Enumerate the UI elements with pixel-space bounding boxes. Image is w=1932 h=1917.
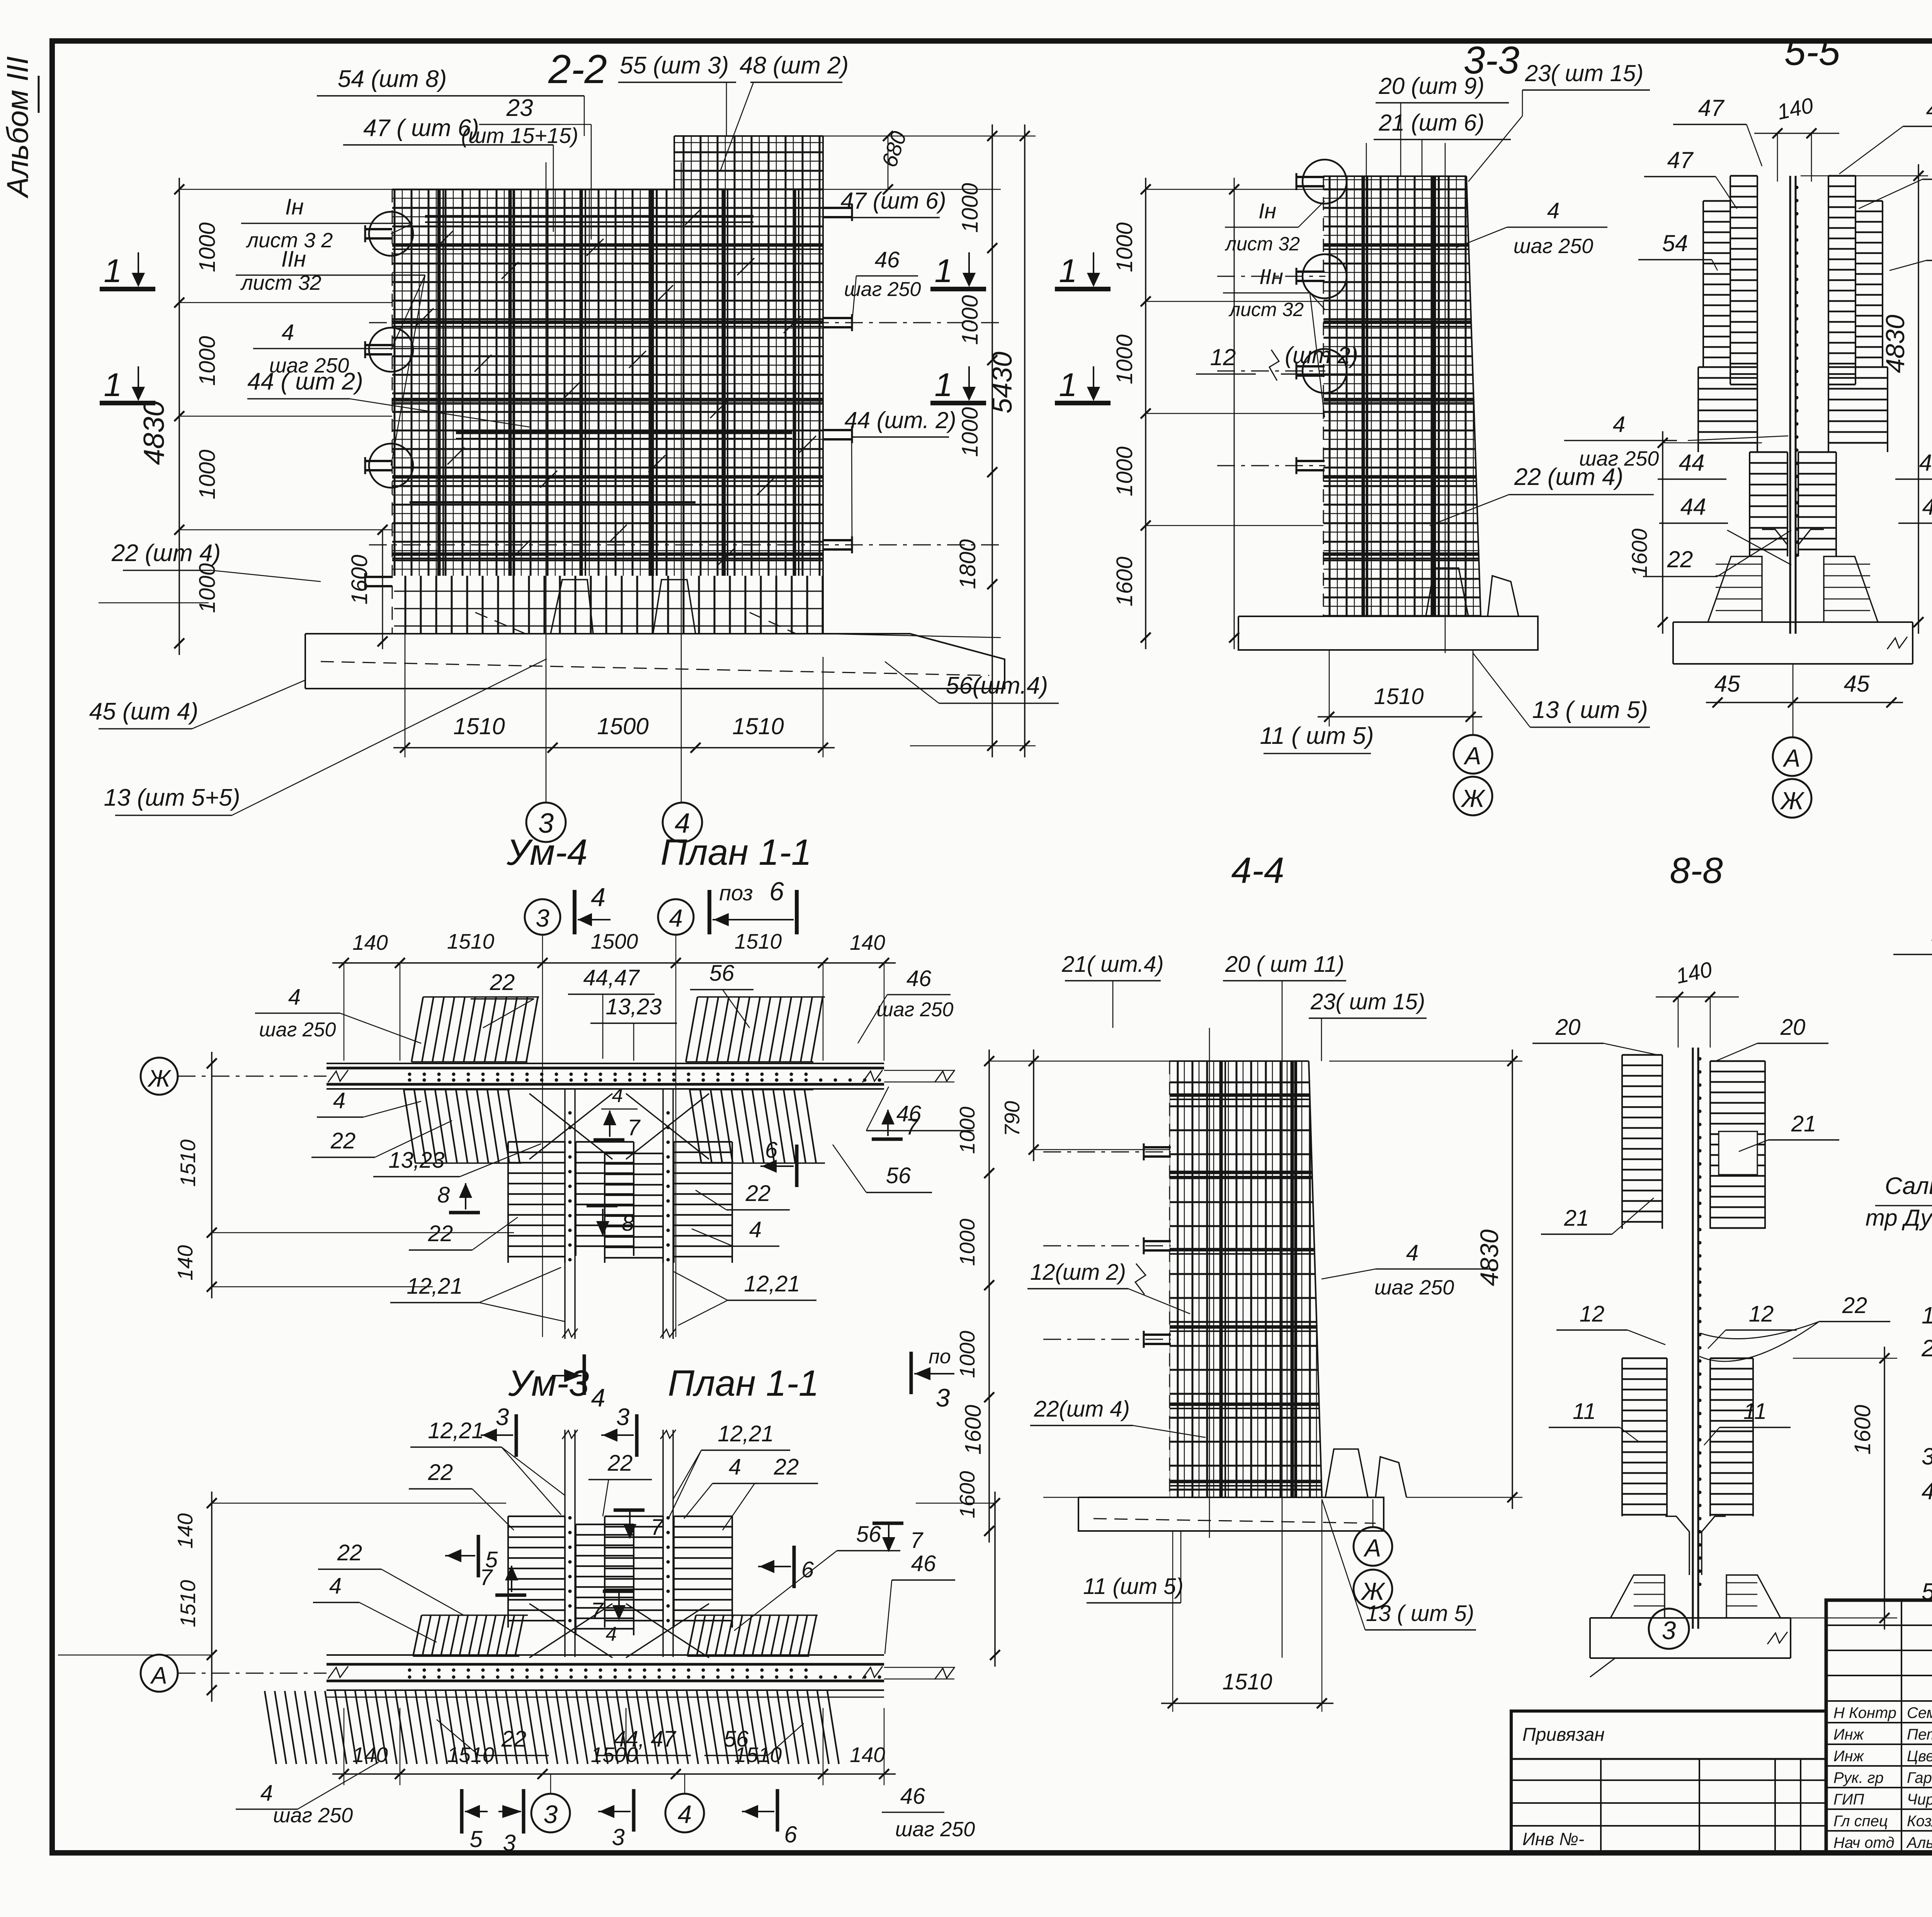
svg-text:22: 22 bbox=[607, 1451, 633, 1476]
plan UM-3 flag 3 marks top bbox=[515, 1414, 518, 1457]
plan UM-3 stem vertical bars bbox=[564, 1430, 565, 1657]
svg-text:1510: 1510 bbox=[447, 1743, 495, 1767]
svg-text:1500: 1500 bbox=[591, 929, 638, 953]
svg-text:47: 47 bbox=[1667, 147, 1694, 173]
svg-text:1000: 1000 bbox=[195, 336, 220, 386]
svg-text:47 (шт 6): 47 (шт 6) bbox=[840, 188, 946, 214]
section 2-2 foundation slab bbox=[305, 634, 1005, 689]
svg-text:4: 4 bbox=[612, 1084, 623, 1107]
plan UM-4 stem vertical bars bbox=[564, 1089, 565, 1339]
svg-text:Гарбуз: Гарбуз bbox=[1907, 1769, 1932, 1786]
svg-text:4830: 4830 bbox=[1475, 1229, 1503, 1286]
plan UM-4 cut flag 4 top bbox=[573, 890, 577, 934]
svg-text:46: 46 bbox=[911, 1551, 936, 1576]
svg-text:4: 4 bbox=[1613, 412, 1625, 437]
svg-text:1510: 1510 bbox=[176, 1139, 200, 1187]
svg-text:Ум-3: Ум-3 bbox=[508, 1363, 589, 1404]
svg-text:22: 22 bbox=[330, 1128, 356, 1153]
svg-text:13 (шт 5+5): 13 (шт 5+5) bbox=[104, 784, 240, 811]
svg-text:1510: 1510 bbox=[732, 713, 784, 739]
svg-text:2 В местах пропуска саль: 2 В местах пропуска сальников арматуру о… bbox=[1921, 1335, 1932, 1361]
svg-text:1600: 1600 bbox=[1850, 1405, 1875, 1454]
chevron funnel to foundation bbox=[1762, 529, 1787, 556]
svg-text:4: 4 bbox=[669, 904, 683, 932]
svg-text:7: 7 bbox=[910, 1528, 924, 1553]
svg-text:22 (шт 4): 22 (шт 4) bbox=[111, 540, 221, 566]
svg-text:11: 11 bbox=[1573, 1399, 1596, 1424]
svg-text:23: 23 bbox=[506, 95, 533, 121]
section 8-8 hatch bands lower bbox=[1622, 1357, 1667, 1359]
svg-text:22: 22 bbox=[501, 1726, 527, 1752]
section 5-5 axis circles bbox=[1773, 737, 1811, 776]
section 2-2 cut marks 1-1 left bbox=[100, 287, 155, 291]
svg-text:44: 44 bbox=[1919, 450, 1932, 476]
svg-text:по: по bbox=[929, 1345, 951, 1368]
section 3-3 second dim line bbox=[1234, 178, 1235, 649]
svg-text:Н Контр: Н Контр bbox=[1833, 1704, 1896, 1721]
svg-text:21: 21 bbox=[1564, 1206, 1589, 1231]
svg-text:12: 12 bbox=[1580, 1301, 1605, 1327]
svg-text:7: 7 bbox=[628, 1115, 641, 1140]
plan UM-4 axis circles 3 4 top bbox=[525, 899, 560, 935]
svg-text:4: 4 bbox=[591, 883, 605, 912]
svg-text:11 (шт 5): 11 (шт 5) bbox=[1083, 1574, 1184, 1599]
svg-text:45 (шт 4): 45 (шт 4) bbox=[89, 698, 198, 725]
svg-text:1: 1 bbox=[1059, 253, 1077, 289]
section 2-2 module dash-dot lines bbox=[369, 322, 1001, 323]
svg-text:22: 22 bbox=[337, 1540, 362, 1565]
svg-text:1510: 1510 bbox=[735, 1743, 782, 1767]
svg-text:1000: 1000 bbox=[957, 295, 983, 345]
svg-text:Iн: Iн bbox=[1259, 199, 1276, 223]
svg-text:13,23: 13,23 bbox=[388, 1148, 444, 1173]
svg-text:3: 3 bbox=[536, 904, 549, 932]
svg-text:1600: 1600 bbox=[347, 555, 372, 604]
svg-text:140: 140 bbox=[173, 1513, 197, 1549]
svg-text:1: 1 bbox=[1059, 367, 1077, 403]
svg-text:47: 47 bbox=[1926, 97, 1932, 123]
svg-text:шаг 250: шаг 250 bbox=[895, 1818, 975, 1841]
plan UM-3 flag 7 marks bbox=[614, 1509, 645, 1512]
svg-text:4: 4 bbox=[729, 1454, 741, 1480]
chevron column center bars at x=4640 bbox=[1789, 176, 1791, 634]
svg-text:Ж: Ж bbox=[1461, 784, 1486, 812]
svg-text:Цветкова: Цветкова bbox=[1907, 1748, 1932, 1765]
svg-text:1510: 1510 bbox=[447, 929, 495, 953]
section 2-2 rebar mesh main bbox=[392, 189, 823, 576]
plan UM-3 flag 6 mark bbox=[793, 1546, 796, 1588]
svg-text:4: 4 bbox=[591, 1383, 605, 1412]
svg-text:48 (шт 2): 48 (шт 2) bbox=[740, 52, 849, 79]
svg-text:1000: 1000 bbox=[1112, 446, 1137, 496]
section 4-4 module dash-dot lines bbox=[1043, 1152, 1171, 1153]
svg-text:4-4: 4-4 bbox=[1231, 850, 1284, 891]
section 8-8 top dim 140 bbox=[1656, 997, 1739, 998]
section 4-4 axis circles A Zh bbox=[1354, 1527, 1392, 1566]
svg-text:Инж: Инж bbox=[1833, 1748, 1864, 1765]
title block left column grid bbox=[1826, 1624, 1932, 1626]
svg-text:Ж: Ж bbox=[1780, 787, 1805, 815]
svg-text:4: 4 bbox=[329, 1573, 342, 1599]
svg-text:45: 45 bbox=[1714, 671, 1740, 697]
plan UM-3 hatch combs above band bbox=[413, 1615, 422, 1656]
section 2-2 grid axis lines bbox=[546, 162, 547, 802]
section 2-2 heavy partial bars inside mesh bbox=[425, 215, 753, 218]
svg-text:1510: 1510 bbox=[176, 1580, 200, 1627]
svg-text:1600: 1600 bbox=[1112, 556, 1137, 606]
svg-text:1: 1 bbox=[104, 367, 122, 403]
section 3-3 left weld tabs and circles bbox=[1296, 176, 1325, 178]
plan UM-3 bottom cut flags bbox=[460, 1789, 464, 1834]
plan UM-4 bottom cut flags bbox=[583, 1354, 586, 1395]
section 8-8 axis circle 3 bbox=[1695, 1609, 1696, 1658]
section 4-4 foundation slab bbox=[1078, 1497, 1384, 1531]
svg-text:(шт 2): (шт 2) bbox=[1285, 342, 1358, 368]
section 2-2 bottom dimension line bbox=[393, 747, 835, 748]
svg-text:Ж: Ж bbox=[1361, 1577, 1386, 1605]
svg-text:План 1-1: План 1-1 bbox=[668, 1363, 819, 1404]
plan UM-3 right dim 1600 bbox=[994, 1492, 996, 1667]
svg-text:45: 45 bbox=[1844, 671, 1870, 697]
plan UM-3 hatch below band full width bbox=[265, 1691, 276, 1764]
svg-text:44: 44 bbox=[1922, 494, 1932, 520]
section 5-5 top dim 140 bbox=[1754, 133, 1839, 134]
section 4-4 axis lines bbox=[1209, 1028, 1210, 1538]
svg-text:12: 12 bbox=[1210, 344, 1236, 370]
section 3-3 axis construction lines bbox=[1366, 143, 1367, 616]
plan UM-3 flag 7 lower bbox=[495, 1594, 526, 1597]
svg-text:23( шт 15): 23( шт 15) bbox=[1525, 60, 1644, 86]
svg-text:шаг 250: шаг 250 bbox=[1579, 447, 1659, 470]
svg-text:4: 4 bbox=[333, 1088, 345, 1113]
svg-text:ГИП: ГИП bbox=[1833, 1791, 1864, 1808]
svg-text:22: 22 bbox=[428, 1221, 453, 1246]
svg-text:1000: 1000 bbox=[955, 1330, 979, 1378]
svg-text:Семенова: Семенова bbox=[1907, 1704, 1932, 1721]
svg-text:6: 6 bbox=[784, 1822, 797, 1847]
svg-text:47: 47 bbox=[1698, 95, 1725, 121]
svg-text:46: 46 bbox=[896, 1101, 922, 1126]
plan UM-4 stem side combs bbox=[508, 1141, 565, 1143]
chevron hatch bands bbox=[1730, 175, 1757, 177]
svg-text:1 совместно с данным см: 1 совместно с данным см л л КЖ-22,26 bbox=[1922, 1302, 1932, 1328]
svg-text:21 (шт 6): 21 (шт 6) bbox=[1378, 110, 1484, 136]
plan UM-3 left dims bbox=[211, 1492, 213, 1702]
svg-text:54: 54 bbox=[1662, 230, 1688, 256]
svg-text:А: А bbox=[1363, 1534, 1381, 1562]
plan UM-3 axis line to circle A bbox=[141, 1655, 178, 1692]
svg-text:12: 12 bbox=[1749, 1301, 1774, 1327]
svg-text:4: 4 bbox=[1547, 198, 1560, 223]
svg-text:Ум-4: Ум-4 bbox=[506, 832, 587, 873]
section 2-2 left weld tabs and circles bbox=[365, 228, 392, 230]
svg-text:Ж: Ж bbox=[147, 1065, 172, 1092]
section 2-2 axis circles 3 and 4 bbox=[526, 803, 566, 842]
svg-text:7: 7 bbox=[591, 1598, 604, 1623]
attachment table left of title block bbox=[1511, 1711, 1826, 1853]
svg-text:3: 3 bbox=[612, 1824, 624, 1850]
svg-text:21: 21 bbox=[1791, 1111, 1816, 1136]
svg-text:790: 790 bbox=[1000, 1101, 1024, 1136]
svg-text:1000: 1000 bbox=[957, 183, 983, 233]
svg-text:лист 32: лист 32 bbox=[240, 271, 321, 294]
chevron foundation blocks bbox=[1708, 556, 1762, 622]
svg-text:8: 8 bbox=[437, 1182, 450, 1208]
plan UM-3 flag 5 mark bbox=[477, 1535, 480, 1577]
section 2-2 mesh edges bbox=[392, 189, 674, 190]
svg-text:1510: 1510 bbox=[735, 929, 782, 953]
svg-text:1: 1 bbox=[934, 367, 952, 403]
section 3-3 left dimension chain bbox=[1146, 189, 1323, 190]
section 2-2 foundation feet bbox=[551, 580, 593, 634]
svg-text:А: А bbox=[1782, 744, 1801, 772]
svg-text:1000: 1000 bbox=[957, 407, 983, 457]
chevron 45 labels bbox=[1706, 702, 1903, 703]
plan UM-4 flag 6 mark bbox=[795, 1145, 799, 1187]
svg-text:4830: 4830 bbox=[138, 400, 170, 465]
svg-text:Чирков: Чирков bbox=[1907, 1791, 1932, 1808]
svg-text:2-2: 2-2 bbox=[548, 47, 607, 92]
plan UM-4 left dimension chain bbox=[211, 1052, 213, 1298]
plan UM-4 flag 7 marks bbox=[594, 1138, 624, 1142]
svg-text:21( шт.4): 21( шт.4) bbox=[1061, 952, 1163, 977]
svg-text:12(шт 2): 12(шт 2) bbox=[1030, 1260, 1126, 1285]
svg-text:шаг 250: шаг 250 bbox=[273, 1804, 353, 1827]
plan UM-4 flag 8 marks bbox=[449, 1211, 480, 1214]
svg-text:1600: 1600 bbox=[1627, 529, 1651, 577]
svg-text:шаг 250: шаг 250 bbox=[1374, 1276, 1454, 1299]
svg-text:4: 4 bbox=[288, 985, 301, 1010]
svg-text:12,21: 12,21 bbox=[744, 1271, 800, 1296]
svg-text:IIн: IIн bbox=[1259, 264, 1283, 289]
svg-text:4 Позиции „ 13 ” приварить: 4 Позиции „ 13 ” приварить к поз „ 11, 1… bbox=[1922, 1478, 1932, 1504]
section 3-3 foundation feet bbox=[1426, 568, 1468, 616]
svg-text:22: 22 bbox=[774, 1454, 799, 1480]
svg-text:56: 56 bbox=[856, 1522, 881, 1547]
svg-text:46: 46 bbox=[906, 966, 932, 991]
svg-text:лист 32: лист 32 bbox=[1228, 299, 1304, 320]
svg-text:5-5: 5-5 bbox=[1784, 30, 1840, 73]
svg-text:1500: 1500 bbox=[597, 713, 648, 739]
svg-text:5 Длина поз „ 11, 12, 20,: 5 Длина поз „ 11, 12, 20, 21” уточняются… bbox=[1922, 1579, 1932, 1605]
svg-text:44: 44 bbox=[1680, 494, 1706, 520]
svg-text:11 ( шт 5): 11 ( шт 5) bbox=[1260, 723, 1374, 749]
svg-text:55 (шт 3): 55 (шт 3) bbox=[620, 52, 729, 79]
section 8-8 notch window 21 bbox=[1719, 1131, 1757, 1175]
svg-text:56: 56 bbox=[709, 961, 735, 986]
svg-text:Альтшуллер: Альтшуллер bbox=[1906, 1834, 1932, 1851]
svg-text:6: 6 bbox=[765, 1138, 778, 1163]
svg-text:12,21: 12,21 bbox=[406, 1274, 463, 1299]
svg-text:Iн: Iн bbox=[285, 194, 304, 219]
section 5-5 left dim 1600 bbox=[1662, 431, 1663, 634]
svg-text:46: 46 bbox=[875, 247, 900, 272]
svg-text:22: 22 bbox=[1842, 1293, 1867, 1318]
section 4-4 left dimension chains bbox=[988, 1050, 990, 1543]
svg-text:46: 46 bbox=[900, 1784, 925, 1809]
svg-text:шаг 250: шаг 250 bbox=[259, 1019, 336, 1041]
section 5-5 right dim 4830 bbox=[1918, 164, 1919, 634]
svg-text:1000: 1000 bbox=[955, 1218, 979, 1266]
svg-text:1510: 1510 bbox=[1374, 684, 1423, 709]
svg-text:Рук. гр: Рук. гр bbox=[1833, 1769, 1884, 1786]
svg-text:3: 3 bbox=[936, 1383, 950, 1412]
svg-text:1510: 1510 bbox=[453, 713, 505, 739]
svg-text:Гл спец: Гл спец bbox=[1833, 1813, 1888, 1830]
svg-text:поз: поз bbox=[719, 881, 753, 905]
svg-text:22: 22 bbox=[490, 970, 515, 995]
svg-text:Петропавловская: Петропавловская bbox=[1907, 1726, 1932, 1743]
svg-text:22: 22 bbox=[428, 1460, 453, 1485]
svg-text:140: 140 bbox=[850, 930, 885, 954]
svg-text:3 Защитный слой бетона: 3 Защитный слой бетона - 20мм. bbox=[1922, 1443, 1932, 1470]
svg-text:1800: 1800 bbox=[955, 539, 980, 589]
title block outer bbox=[1826, 1600, 1932, 1853]
svg-text:1510: 1510 bbox=[1222, 1669, 1272, 1694]
section 3-3 module dash-dot lines bbox=[1217, 276, 1325, 277]
section 3-3 axis circles A Zh bbox=[1473, 650, 1474, 735]
svg-text:(шт 15+15): (шт 15+15) bbox=[461, 123, 578, 148]
svg-text:А: А bbox=[150, 1662, 167, 1689]
plan UM-4 hatch combs below band bbox=[404, 1090, 415, 1163]
svg-text:Сальник для: Сальник для bbox=[1885, 1173, 1932, 1199]
plan UM-3 X braces at junction bbox=[529, 1604, 612, 1658]
section 2-2 left dimension chain bbox=[179, 189, 392, 190]
section 2-2 bar splice tick marks bbox=[436, 231, 453, 248]
svg-text:Альбом III: Альбом III bbox=[0, 56, 34, 199]
section 4-4 left weld tabs bbox=[1144, 1146, 1171, 1148]
svg-text:22(шт 4): 22(шт 4) bbox=[1034, 1397, 1130, 1422]
svg-text:140: 140 bbox=[173, 1245, 197, 1281]
svg-text:шаг 250: шаг 250 bbox=[877, 998, 954, 1021]
plan UM-3 bottom dimension line bbox=[332, 1773, 896, 1775]
svg-text:44,47: 44,47 bbox=[583, 965, 640, 990]
svg-text:44 ( шт 2): 44 ( шт 2) bbox=[247, 368, 363, 395]
svg-text:13 ( шт 5): 13 ( шт 5) bbox=[1532, 697, 1648, 723]
svg-text:20 ( шт 11): 20 ( шт 11) bbox=[1225, 952, 1344, 977]
svg-text:5: 5 bbox=[469, 1826, 483, 1852]
svg-text:20 (шт 9): 20 (шт 9) bbox=[1378, 73, 1484, 99]
svg-text:44 (шт. 2): 44 (шт. 2) bbox=[844, 407, 956, 433]
plan UM-4 X braces at junction bbox=[529, 1094, 612, 1159]
plan UM-3 axis circles 3 4 bottom bbox=[531, 1794, 570, 1832]
svg-text:20: 20 bbox=[1780, 1015, 1806, 1040]
svg-text:1000: 1000 bbox=[1112, 334, 1137, 384]
svg-text:1800: 1800 bbox=[1930, 536, 1932, 585]
svg-text:1000: 1000 bbox=[195, 222, 220, 272]
svg-text:4: 4 bbox=[606, 1623, 617, 1645]
plan UM-4 top dimension line bbox=[332, 962, 896, 964]
svg-text:лист 32: лист 32 bbox=[1225, 233, 1300, 255]
svg-text:4830: 4830 bbox=[1881, 315, 1910, 373]
svg-text:56(шт.4): 56(шт.4) bbox=[946, 672, 1048, 699]
svg-text:5430: 5430 bbox=[987, 352, 1018, 413]
section 8-8 center bars bbox=[1692, 1048, 1694, 1629]
plan UM-4 wall band horizontal bbox=[327, 1063, 884, 1064]
svg-text:1000: 1000 bbox=[195, 449, 220, 499]
svg-text:IIн: IIн bbox=[281, 247, 306, 272]
svg-text:Нач отд: Нач отд bbox=[1833, 1834, 1895, 1851]
plan UM-4 stem break marks bottom bbox=[562, 1328, 578, 1338]
plan UM-4 hatch combs above band bbox=[412, 997, 423, 1062]
section 2-2 mesh upper step bbox=[674, 136, 823, 189]
svg-text:3: 3 bbox=[544, 1800, 558, 1829]
section 4-4 right dim 4830 bbox=[1512, 1050, 1513, 1509]
svg-text:140: 140 bbox=[352, 1743, 388, 1767]
plan UM-3 wall band horizontal bbox=[327, 1654, 884, 1656]
plan UM-4 axis line to circle Zh bbox=[141, 1058, 178, 1095]
svg-text:1500: 1500 bbox=[591, 1743, 638, 1767]
section 2-2 cut marks 1-1 right bbox=[930, 287, 986, 291]
svg-text:54 (шт 8): 54 (шт 8) bbox=[338, 66, 447, 92]
svg-text:Привязан: Привязан bbox=[1522, 1725, 1605, 1745]
svg-text:1: 1 bbox=[934, 253, 952, 289]
plan UM-3 stem side combs bbox=[508, 1516, 565, 1517]
svg-text:20: 20 bbox=[1555, 1015, 1581, 1040]
svg-text:7: 7 bbox=[480, 1565, 493, 1590]
svg-text:4: 4 bbox=[678, 1800, 692, 1829]
svg-text:3: 3 bbox=[1662, 1616, 1676, 1645]
svg-text:1: 1 bbox=[104, 253, 122, 289]
svg-text:1600: 1600 bbox=[955, 1471, 979, 1518]
svg-text:1000: 1000 bbox=[955, 1106, 979, 1154]
svg-text:тр Ду = 200; 300: тр Ду = 200; 300 bbox=[1866, 1205, 1932, 1231]
svg-text:12,21: 12,21 bbox=[718, 1421, 774, 1446]
section 8-8 funnel and foundation bbox=[1665, 1516, 1689, 1575]
section 2-2 mesh lower band vertical bars bbox=[392, 576, 823, 634]
svg-text:140: 140 bbox=[352, 930, 388, 954]
svg-text:4: 4 bbox=[260, 1781, 273, 1806]
svg-text:11: 11 bbox=[1743, 1399, 1767, 1424]
svg-text:140: 140 bbox=[850, 1743, 885, 1767]
svg-text:1000: 1000 bbox=[1112, 222, 1137, 272]
svg-text:8-8: 8-8 bbox=[1670, 850, 1723, 891]
svg-text:23( шт 15): 23( шт 15) bbox=[1310, 989, 1425, 1014]
section 3-3 bottom dims and labels bbox=[1318, 716, 1482, 718]
svg-text:План 1-1: План 1-1 bbox=[660, 832, 811, 873]
chevron base slab bbox=[1673, 621, 1913, 623]
svg-text:4: 4 bbox=[749, 1217, 762, 1242]
svg-text:8: 8 bbox=[622, 1211, 634, 1236]
svg-text:12,21: 12,21 bbox=[428, 1418, 484, 1443]
chevron axis line below bbox=[1793, 664, 1794, 737]
section 3-3 foundation slab bbox=[1238, 616, 1538, 650]
svg-text:1600: 1600 bbox=[961, 1405, 986, 1454]
svg-text:Козловичер: Козловичер bbox=[1907, 1813, 1932, 1830]
svg-text:13,23: 13,23 bbox=[605, 994, 662, 1019]
svg-text:7: 7 bbox=[651, 1515, 664, 1540]
section 2-2 right weld tabs bbox=[823, 207, 852, 209]
svg-text:А: А bbox=[1463, 742, 1481, 770]
chevron lower band bbox=[1698, 366, 1757, 368]
svg-text:Инв №-: Инв №- bbox=[1522, 1829, 1584, 1849]
svg-text:22: 22 bbox=[745, 1181, 771, 1206]
svg-text:56: 56 bbox=[886, 1163, 911, 1188]
svg-text:4: 4 bbox=[1406, 1240, 1418, 1266]
svg-text:Инж: Инж bbox=[1833, 1726, 1864, 1743]
svg-text:3: 3 bbox=[496, 1404, 509, 1431]
svg-text:шаг 250: шаг 250 bbox=[1514, 235, 1594, 258]
svg-text:44: 44 bbox=[1679, 450, 1705, 476]
section 8-8 hatch bands upper bbox=[1622, 1054, 1662, 1056]
svg-text:3: 3 bbox=[616, 1404, 629, 1431]
svg-text:4: 4 bbox=[282, 320, 294, 345]
section 2-2 right dimension chain bbox=[992, 124, 993, 757]
svg-text:3: 3 bbox=[503, 1830, 515, 1856]
svg-text:22: 22 bbox=[1667, 546, 1693, 572]
svg-text:6: 6 bbox=[769, 877, 784, 906]
section 8-8 base slab bbox=[1590, 1617, 1791, 1619]
